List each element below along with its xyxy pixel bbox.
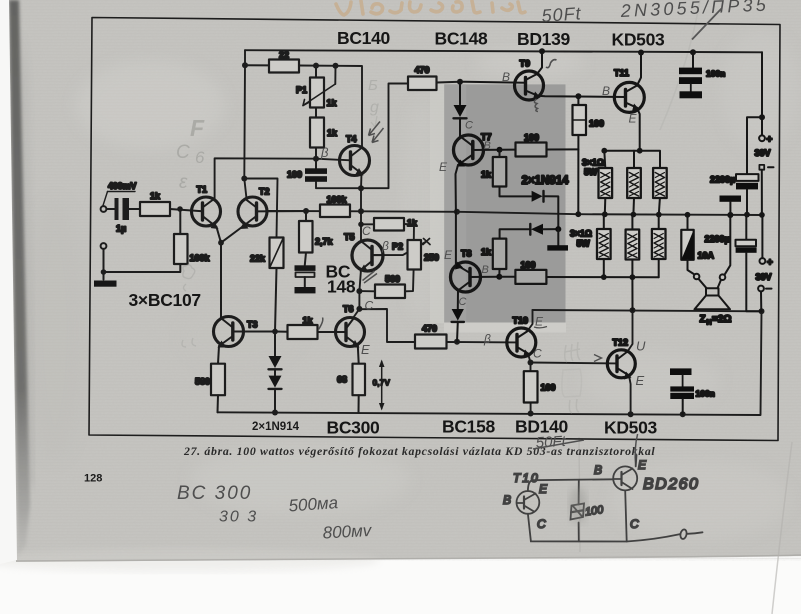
svg-text:148: 148 <box>327 277 356 297</box>
svg-text:T10: T10 <box>513 471 540 485</box>
svg-text:E: E <box>439 160 448 174</box>
junction: T3 base node <box>272 329 278 335</box>
left page edge shadow <box>0 0 1 1</box>
wire: bank to output rail riser <box>631 277 633 310</box>
svg-text:400mV: 400mV <box>108 181 136 191</box>
svg-text:g: g <box>370 99 379 116</box>
svg-text:1k: 1k <box>407 218 418 228</box>
junction: T2 collector branch <box>241 176 247 182</box>
label 3x1ohm 5W lower <box>570 229 592 249</box>
svg-text:E: E <box>535 315 544 329</box>
junction: mid rail / T4-T5 column <box>358 208 364 214</box>
wire: branch to 22k top <box>244 179 277 238</box>
svg-text:22: 22 <box>279 50 289 60</box>
resistor R22 1ohm c <box>653 168 667 215</box>
diode D2 bias <box>269 376 282 413</box>
chassis bar right <box>720 196 742 218</box>
transistor T6 <box>336 304 365 364</box>
wire: 100k bottom to ground node <box>104 264 181 272</box>
svg-text:250: 250 <box>424 253 439 263</box>
wire: T10 emitter to 100 and T12 base <box>528 354 531 372</box>
transistor T7 <box>454 132 492 212</box>
svg-text:T8: T8 <box>461 249 472 259</box>
input source leader line <box>103 192 135 206</box>
fuse F1 10A <box>681 212 714 275</box>
capacitor C3 100 at T4 <box>287 159 327 182</box>
svg-text:1k: 1k <box>481 170 492 180</box>
svg-text:50Ft: 50Ft <box>535 433 567 452</box>
transistor T9 <box>515 51 544 100</box>
svg-text:2200µ: 2200µ <box>705 234 730 244</box>
svg-text:T4: T4 <box>346 134 357 144</box>
pencil beta at P1 <box>320 145 329 160</box>
label BC 148 two-line <box>326 262 356 297</box>
svg-text:100k: 100k <box>190 253 211 263</box>
junction: bank rail / T11 emitter <box>637 148 643 154</box>
diode D6 at T8 collector <box>452 309 464 342</box>
bottom paper edge <box>16 555 801 561</box>
svg-text:B: B <box>503 493 511 507</box>
svg-text:BC300: BC300 <box>327 418 381 438</box>
svg-text:B: B <box>482 264 489 276</box>
svg-text:100: 100 <box>589 119 604 129</box>
resistor R26 100 at T10 <box>524 371 556 402</box>
svg-text:Б: Б <box>368 77 378 94</box>
svg-text:5W: 5W <box>577 239 591 249</box>
wire: 1k right to 250 pot top <box>404 224 414 240</box>
svg-text:β: β <box>483 332 491 346</box>
pencil marks at T5 <box>362 224 389 283</box>
svg-text:100: 100 <box>541 383 556 393</box>
svg-text:27. ábra. 100 wattos végerősít: 27. ábra. 100 wattos végerősítő fokozat … <box>183 444 655 458</box>
capacitor C4 100n top <box>679 52 725 98</box>
faint creases <box>660 0 700 130</box>
svg-text:T3: T3 <box>247 320 258 330</box>
potentiometer P1 1k <box>296 66 338 108</box>
svg-text:T2: T2 <box>259 187 270 197</box>
svg-text:U: U <box>636 339 646 354</box>
wire: emitters to T3 collector <box>220 243 222 319</box>
transistor T8 <box>451 249 500 309</box>
svg-text:ε: ε <box>179 172 188 193</box>
svg-text:C: C <box>362 224 371 238</box>
wire: T7/T8 emitter column <box>456 212 459 267</box>
svg-text:=2Ω: =2Ω <box>712 314 731 325</box>
svg-text:100: 100 <box>524 133 539 143</box>
capacitor C1 1u <box>115 198 141 234</box>
svg-text:E: E <box>361 342 370 357</box>
transistor T1 <box>192 185 222 243</box>
svg-text:β: β <box>320 145 329 160</box>
resistor R23 1ohm d <box>597 214 611 277</box>
transistor T2 <box>221 187 270 243</box>
diode D3 to T7 collector <box>454 82 467 137</box>
svg-text:H: H <box>707 320 712 327</box>
svg-text:KD503: KD503 <box>612 30 666 50</box>
svg-text:E: E <box>629 112 638 126</box>
diode D1 bias <box>269 332 282 376</box>
resistor R10 1k under P1 <box>310 108 338 159</box>
svg-text:470: 470 <box>422 324 437 334</box>
svg-text:68: 68 <box>337 375 347 385</box>
wire: 22 resistor row to T4 collector riser <box>299 66 362 148</box>
transistor T12 <box>607 338 635 380</box>
label 3xBC107 <box>129 290 201 310</box>
wire: upper bank top rail <box>604 151 660 168</box>
junction: T12 emitter on bottom rail <box>628 411 634 417</box>
label KD503 bottom <box>604 418 658 438</box>
junction: output rail / T12 collector column <box>630 307 636 313</box>
wire: T5 emitter to 560 and T6 collector column <box>353 270 361 319</box>
wire: T7 base to node <box>473 149 500 151</box>
svg-text:BC140: BC140 <box>337 28 391 48</box>
pencil marks at T7 <box>439 120 491 175</box>
resistor R19 100 divided <box>573 96 605 214</box>
resistor R1 1k input <box>140 191 203 216</box>
terminal -30V lower <box>758 286 771 312</box>
wire: T4/T5 vertical column <box>360 188 362 241</box>
svg-text:30 3: 30 3 <box>219 509 258 526</box>
junction: T2 base / 2.7k node <box>303 208 309 214</box>
svg-text:T5: T5 <box>344 232 355 242</box>
wire: T2 base to node <box>257 210 307 212</box>
label BC300 <box>327 418 381 438</box>
svg-text:3×BC107: 3×BC107 <box>129 290 201 310</box>
junction: T9 collector on top rail <box>539 48 545 54</box>
svg-text:1k: 1k <box>327 128 338 138</box>
svg-text:560: 560 <box>385 274 400 284</box>
svg-text:P2: P2 <box>392 242 403 252</box>
svg-text:2,7k: 2,7k <box>315 237 334 247</box>
wire: node to 1k left <box>275 331 288 333</box>
label BD140 <box>515 417 569 437</box>
wire: T4 base <box>316 159 351 161</box>
potentiometer P2 250 <box>392 239 439 270</box>
svg-text:C: C <box>630 517 639 531</box>
svg-text:C: C <box>176 142 190 163</box>
label 2x1N914 bottom <box>252 421 300 433</box>
ghost bleed-through letters left <box>176 115 205 193</box>
highlighted (shaded) region of schematic <box>444 84 565 322</box>
svg-text:100n: 100n <box>706 69 725 79</box>
junction: T4 emitter node <box>358 185 364 191</box>
svg-text:BC148: BC148 <box>435 29 489 49</box>
wire: T12 emitter to bottom rail <box>629 376 631 415</box>
wire: 560 left to T5 emitter node <box>359 290 375 292</box>
svg-text:6: 6 <box>195 148 205 167</box>
svg-text:2×1N914: 2×1N914 <box>252 421 300 433</box>
svg-text:2200µ: 2200µ <box>710 175 735 185</box>
svg-text:128: 128 <box>84 473 102 485</box>
capacitor C6 2200u lower <box>705 215 762 312</box>
terminal -30V upper <box>759 165 773 215</box>
junction: diff pair emitters <box>218 240 224 246</box>
diode D5 1N914 <box>500 224 559 239</box>
page number 128 <box>84 473 102 485</box>
wire: 100k top stub <box>179 209 181 234</box>
junction: diode chain node <box>555 226 561 232</box>
wire: T4 emitter <box>360 174 363 189</box>
wire: P1 wiper stub <box>334 66 336 84</box>
svg-text:B: B <box>594 463 602 477</box>
pencil smudge near sketch cap <box>569 487 587 523</box>
junction: 100 top / T11 base <box>575 93 581 99</box>
terminal +30V upper <box>755 117 773 158</box>
resistor R6 1k T3-T6 <box>288 316 347 340</box>
svg-text:E: E <box>444 248 453 262</box>
resistor R11 470 top <box>408 65 460 90</box>
wire: top supply rail <box>245 50 762 52</box>
svg-text:B: B <box>602 84 610 98</box>
wire: T12 base <box>531 362 618 365</box>
pencil 50Ft over caption <box>533 433 584 452</box>
label KD503 top <box>612 30 666 50</box>
svg-text:100k: 100k <box>327 195 348 205</box>
junction: T6 collector node <box>356 306 362 312</box>
svg-text:1k: 1k <box>481 247 492 257</box>
svg-text:5W: 5W <box>584 167 598 177</box>
resistor R7 68 <box>337 364 365 413</box>
resistor R5 580 <box>195 346 225 412</box>
label BC140 <box>337 28 391 48</box>
svg-text:C: C <box>365 299 374 313</box>
svg-text:C: C <box>459 296 467 308</box>
svg-text:T1: T1 <box>197 185 208 195</box>
label BC158 <box>442 417 496 437</box>
resistor R2 100k vertical <box>174 234 211 264</box>
junction: top rail / 22 resistor left <box>242 62 248 68</box>
pencil note 800mv <box>322 521 373 543</box>
svg-text:BC158: BC158 <box>442 417 496 437</box>
resistor R21 1ohm b <box>627 151 641 215</box>
junction: T7 base / 100 / 1k <box>497 147 503 153</box>
wire: right column top <box>761 52 763 117</box>
faded orange marker handwriting top <box>336 1 525 15</box>
resistor R14 470 bottom <box>415 324 447 349</box>
pencil marks at T12 <box>594 339 646 389</box>
resistor R12 1k at T5 <box>374 218 418 231</box>
junction: P1 wiper stub node <box>333 63 339 69</box>
chassis bar stub <box>547 229 568 250</box>
resistor R24 1ohm e <box>626 215 640 278</box>
wire: lower 470 to T10 base <box>447 341 518 343</box>
label 2x1N914 highlight <box>522 175 570 187</box>
resistor R9 22 top <box>245 50 299 73</box>
hand-drawn sketch: 100 capacitor <box>571 504 605 520</box>
wire: long mid rail from T2 base node to right supply column <box>267 211 762 215</box>
transistor T3 <box>214 317 276 348</box>
wire: T5 base to P2 wiper <box>373 242 426 255</box>
svg-text:22k: 22k <box>250 254 266 264</box>
svg-text:BC 300: BC 300 <box>177 483 252 504</box>
hand-drawn sketch: transistor T10 <box>503 471 548 531</box>
svg-text:30V: 30V <box>756 272 772 282</box>
svg-text:β: β <box>381 239 389 253</box>
wire: bottom rail <box>218 311 762 415</box>
ghost blob small <box>182 265 196 347</box>
junction: ground node <box>101 269 107 275</box>
junction: 470 / diode / T9 base <box>457 79 463 85</box>
hand-drawn sketch: transistor BD260 <box>594 458 699 531</box>
wire: P1 bottom node row to T1 collector riser <box>215 158 316 197</box>
svg-text:B: B <box>502 70 510 84</box>
wire: jog to 2200u column <box>747 117 762 174</box>
resistor R15 100 at T7 <box>500 133 579 157</box>
resistor R16 1k upper bias <box>481 150 531 197</box>
input terminal lower <box>101 243 107 279</box>
svg-text:1k: 1k <box>150 191 161 201</box>
junction: output rail / right column <box>759 308 765 314</box>
svg-text:T12: T12 <box>613 338 629 348</box>
svg-text:BD139: BD139 <box>517 29 571 49</box>
junction: mid rail / T7-T8 emitter column <box>454 209 460 215</box>
pencil marks at T9 <box>502 60 557 112</box>
SECTION-SCHEMATIC2 <box>94 50 460 413</box>
wire: T10 100 bottom stub <box>530 403 532 414</box>
input terminal upper <box>101 206 115 212</box>
transistor T10 <box>507 316 536 358</box>
wire: T12 collector riser <box>628 310 633 351</box>
label BC148 top <box>435 29 489 49</box>
junction: 560 left node <box>356 288 362 294</box>
pencil note BC 300 <box>177 483 252 504</box>
transistor T11 <box>614 53 644 113</box>
pencil marks at T8 <box>444 248 489 308</box>
svg-text:T6: T6 <box>343 304 354 314</box>
junction: mid rail right end <box>759 212 765 218</box>
wire: 22k bottom to T3 base node <box>275 268 277 332</box>
wire: T9 emitter to T11 base <box>538 96 626 97</box>
junction: 100n bottom on rail <box>680 411 686 417</box>
0,7V measure arrow <box>373 360 391 411</box>
hand-drawn sketch: wires <box>528 455 703 542</box>
junction: mid rail nodes <box>575 211 661 217</box>
junction: 100n on top rail <box>690 49 696 55</box>
resistor R8 22k with diagonal <box>250 238 284 269</box>
label 3x1ohm 5W upper <box>582 158 604 178</box>
wire: T9 base <box>460 82 526 83</box>
wire: T11 emitter to bank rail <box>637 108 640 151</box>
junction: diodes bottom <box>272 410 278 416</box>
junction: diode column / T10 base <box>454 339 460 345</box>
wire: left vertical from top rail to T2 collector <box>244 50 246 198</box>
svg-text:E: E <box>638 458 647 472</box>
svg-text:C: C <box>465 120 473 132</box>
capacitor C7 100n bottom <box>670 368 715 414</box>
ground bar <box>94 281 117 287</box>
svg-text:C: C <box>537 517 546 531</box>
pencil arrows at T4 <box>369 122 384 143</box>
svg-text:1k: 1k <box>303 316 314 326</box>
junction: T8 base node <box>496 274 502 280</box>
svg-text:100: 100 <box>287 170 302 180</box>
speaker LS with terminals <box>694 212 733 326</box>
capacitor C2 electrolytic <box>295 265 316 293</box>
svg-text:500ма: 500ма <box>288 493 339 515</box>
wire: column to 1k left <box>358 222 374 228</box>
svg-text:Z: Z <box>700 314 706 325</box>
junction: P1/1k/cap/T4-base node <box>313 156 319 162</box>
figure caption <box>183 444 655 458</box>
svg-text:1µ: 1µ <box>116 224 126 234</box>
resistor R17 1k lower bias <box>481 239 506 277</box>
pencil note 30 3 <box>219 509 258 526</box>
svg-text:2×1N914: 2×1N914 <box>522 175 570 187</box>
svg-text:800мv: 800мv <box>322 521 373 543</box>
svg-text:T10: T10 <box>513 316 529 326</box>
resistor R20 1ohm a <box>599 151 613 215</box>
ghost scrawl near T12 <box>562 342 582 413</box>
resistor R25 1ohm f <box>652 215 666 278</box>
junction: right column node <box>759 114 765 120</box>
wire: lower bank bottom rail <box>604 276 659 278</box>
ghost marks near BC140 <box>368 77 379 127</box>
pencil note 500ma <box>288 493 339 515</box>
transistor T4 <box>340 134 370 176</box>
pencil link line KD503 to sketch <box>635 434 637 466</box>
svg-text:10A: 10A <box>698 251 715 261</box>
svg-text:T9: T9 <box>520 59 531 69</box>
svg-text:+: + <box>767 135 773 146</box>
svg-text:B: B <box>484 140 491 152</box>
svg-text:KD503: KD503 <box>604 418 658 438</box>
svg-text:T11: T11 <box>614 68 629 78</box>
svg-text:470: 470 <box>415 65 430 75</box>
svg-text:1k: 1k <box>327 98 338 108</box>
svg-text:580: 580 <box>195 377 210 387</box>
svg-text:+: + <box>767 258 773 269</box>
wire: T6 collector node to lower 470 <box>359 309 415 342</box>
junction: bottom bank nodes <box>601 274 635 280</box>
junction: T10 emitter node <box>528 360 534 366</box>
resistor R4 100k horizontal <box>320 195 350 218</box>
svg-text:E: E <box>539 482 548 496</box>
junction: T10 100 bottom <box>528 411 534 417</box>
wire: output rail y310 <box>533 310 762 311</box>
junction: 1k / 100k / T1 base <box>177 206 183 212</box>
svg-text:100n: 100n <box>696 389 715 399</box>
figure border frame <box>89 18 780 441</box>
junction: P1 top node <box>313 63 319 69</box>
terminal +30V lower <box>756 215 774 282</box>
label BD139 <box>517 29 571 49</box>
transistor T5 <box>344 232 383 272</box>
svg-text:P1: P1 <box>296 85 307 95</box>
wire: T4 emitter rail to feedback riser <box>316 84 408 189</box>
svg-text:3×1Ω: 3×1Ω <box>570 229 592 239</box>
pencil marks at T11 <box>602 84 638 126</box>
pencil note SOFt top <box>541 3 582 26</box>
pencil marks at T6 <box>319 299 374 358</box>
resistor R13 560 <box>375 274 405 298</box>
light band left of highlight <box>430 84 566 333</box>
svg-text:100: 100 <box>521 260 536 270</box>
svg-text:3×1Ω: 3×1Ω <box>582 158 604 168</box>
svg-text:0,7V: 0,7V <box>373 378 391 388</box>
svg-text:F: F <box>190 115 205 141</box>
junction: bank rail left <box>601 148 607 154</box>
svg-text:50Ft: 50Ft <box>541 3 582 26</box>
svg-text:C: C <box>533 347 542 361</box>
label 400mV <box>108 181 136 191</box>
svg-text:E: E <box>636 373 645 388</box>
pencil marks at T10 <box>483 315 547 361</box>
resistor R18 100 at T8 <box>499 260 604 284</box>
capacitor C5 2200u upper <box>710 174 759 217</box>
wire: 560 right to 250 pot bottom <box>405 270 414 292</box>
resistor R3 2.7k <box>299 211 334 265</box>
diode D4 1N914 <box>532 191 559 229</box>
